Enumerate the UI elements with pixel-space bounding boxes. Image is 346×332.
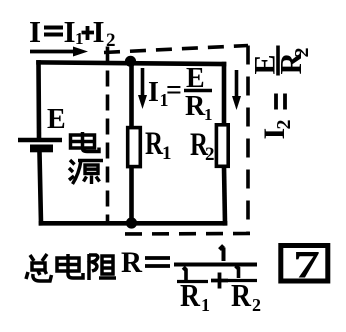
svg-text:2: 2 — [291, 48, 313, 58]
svg-text:R: R — [180, 277, 201, 313]
svg-text:I: I — [93, 14, 105, 49]
svg-text:=: = — [166, 75, 182, 106]
svg-text:I: I — [64, 14, 76, 49]
svg-text:R: R — [185, 91, 206, 122]
svg-text:7: 7 — [293, 244, 320, 287]
svg-text:R: R — [121, 246, 142, 279]
svg-text:I: I — [148, 77, 159, 108]
svg-text:2: 2 — [106, 30, 116, 51]
svg-text:R: R — [231, 277, 252, 313]
svg-text:I: I — [29, 14, 41, 49]
svg-text:2: 2 — [205, 144, 215, 165]
svg-text:2: 2 — [273, 120, 295, 130]
svg-text:1: 1 — [162, 143, 172, 164]
svg-text:1: 1 — [204, 105, 213, 124]
svg-text:1: 1 — [201, 295, 210, 315]
svg-text:E: E — [47, 104, 66, 135]
svg-text:2: 2 — [252, 295, 261, 315]
